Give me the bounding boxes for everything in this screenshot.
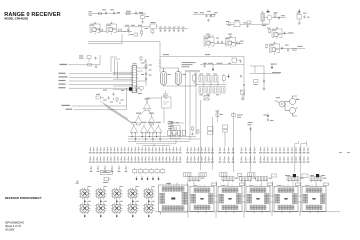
resistor network RN3 [144, 168, 148, 174]
junction arrow right of U201 [307, 17, 309, 18]
label U401 [193, 185, 198, 186]
wire: bus to mixer [88, 34, 160, 55]
capacitor C208 [287, 49, 289, 53]
label R306 [96, 94, 107, 101]
box U330 [208, 127, 214, 135]
wire: long vertical V212 [212, 117, 214, 146]
wire: buffer out [263, 18, 286, 25]
resistor R330 [192, 126, 194, 131]
resistor network RN1 [133, 168, 137, 174]
labels bank [200, 74, 220, 96]
capacitor C331 [249, 127, 251, 131]
wire: net AL_LNL to U301 [69, 87, 132, 89]
relay K1 [79, 186, 91, 203]
relay K9 [127, 201, 139, 218]
label net R.CH [66, 109, 73, 110]
wire: interstage coupling [100, 31, 132, 33]
label U402 [221, 185, 226, 186]
ground [298, 22, 301, 25]
label T302 [183, 74, 187, 75]
header connector P2 [222, 177, 234, 183]
bits at 230 [232, 112, 236, 119]
capacitor C115 shunt [182, 29, 184, 33]
capacitor C332 [267, 118, 269, 122]
label Y201 [226, 20, 247, 23]
wire: LC ladder [158, 28, 188, 30]
label C110 [159, 26, 162, 29]
label far right pads [339, 151, 350, 154]
small cluster above packages [104, 178, 111, 181]
IC U321 [171, 126, 181, 139]
capacitor C301 [94, 57, 96, 61]
label net AL_LNL [59, 87, 66, 88]
wire: field feed bends [136, 140, 176, 147]
label net DVRE_FB1 [59, 76, 68, 77]
connector pin row PF1 [271, 147, 310, 153]
wire: diagonal feeds [100, 101, 135, 125]
capacitor C303 [144, 59, 146, 63]
resistor network RN4 [149, 168, 153, 174]
label C115 [182, 26, 185, 29]
label C114 [177, 26, 180, 29]
wire: +V rail top left [88, 13, 146, 15]
junction dot [243, 84, 244, 85]
label C112 [168, 26, 171, 29]
wire [282, 33, 288, 35]
resistor R202 [236, 42, 241, 44]
label PACW.TX with connector symbol [60, 64, 68, 65]
wire: LO feed [193, 13, 216, 15]
connector pin row PE2 [259, 156, 269, 162]
connector pin row PC1 [219, 147, 235, 153]
resistor R103 [99, 29, 104, 31]
junction arrow [228, 74, 230, 78]
label 15.2M [163, 54, 210, 55]
wire: shield box top edge [160, 56, 244, 101]
label net RF_UNL [59, 80, 66, 81]
resistor R201 [247, 21, 251, 24]
tick marks on vertical feed [159, 60, 161, 66]
wire: QFP row interconnect [214, 196, 302, 202]
transistor Q303 [285, 102, 298, 117]
transistor Q201 stage [204, 35, 214, 48]
capacitor C103 [135, 11, 137, 15]
splitter tree: amp A2 [135, 113, 142, 125]
wire: long vertical V250 [250, 127, 252, 146]
resistor R320 [254, 80, 259, 83]
capacitor C207 [281, 47, 283, 51]
label cluster [141, 63, 152, 76]
node VCC1 labels [89, 9, 121, 15]
wire: net B_UP to U301 [69, 73, 132, 75]
label rows: LO_FLT nets [182, 62, 196, 67]
label NOTE1 text [102, 172, 111, 173]
label PL.MO [272, 72, 281, 73]
label net DET [285, 45, 303, 47]
capacitor C304 [145, 72, 147, 76]
resistor R307 [116, 97, 118, 102]
header connector P4 [256, 177, 268, 183]
ground hatch G1 [163, 91, 169, 99]
IC U405 [302, 183, 329, 213]
capacitor C202 [217, 41, 219, 45]
resistor R310 [223, 74, 226, 84]
crystal bank row 2 [199, 87, 225, 94]
label row 2 [203, 63, 231, 64]
label right col [264, 115, 274, 122]
label 216 [216, 111, 224, 115]
crystal bank row 1 [199, 76, 218, 83]
resistor R102 [141, 13, 145, 20]
crystal filter FL201 [261, 11, 264, 25]
wire: long vertical V225 [224, 132, 226, 146]
connector J2 [199, 173, 207, 177]
box U331 [223, 125, 228, 132]
label P5 [300, 178, 303, 179]
label FL101 [151, 22, 156, 23]
wire: long vertical V233 [233, 119, 235, 146]
regulator U201 [297, 15, 302, 22]
ferrite FB2 (filled) [316, 174, 319, 177]
label net RF_IN [126, 11, 143, 13]
IC U404 [274, 183, 301, 213]
wire: shield box 2 left edge [186, 71, 201, 136]
label P3 [253, 178, 256, 179]
connector pin row PF2 [271, 156, 310, 162]
label U404 [277, 185, 282, 186]
splitter tree: amp A5 [140, 122, 147, 134]
header connector P5 [287, 177, 299, 183]
label net B_UP [59, 73, 66, 74]
relay K4 [127, 186, 139, 203]
junction arrow [212, 67, 214, 71]
splitter tree: amp A6 [148, 122, 155, 134]
splitter tree: amp A3 [148, 113, 155, 125]
capacitor C205 [303, 15, 305, 19]
resistor R304 [145, 64, 147, 69]
capacitor C401 [76, 180, 78, 184]
ferrite FB1 (filled) [293, 174, 296, 177]
diode D301 [241, 90, 245, 97]
wire: header drops [194, 183, 316, 187]
IC U401 [190, 183, 217, 213]
label P2 [235, 178, 238, 179]
relay K6 [79, 201, 91, 218]
connector pin row PD1 [240, 147, 256, 153]
capacitor C110 shunt [159, 29, 161, 33]
junction dots [113, 99, 121, 104]
wire: inter-IC verticals [188, 173, 301, 212]
wire: field crossings [201, 146, 251, 172]
label P4 [269, 178, 272, 179]
label bottom row [285, 175, 325, 176]
relay K8 [111, 201, 123, 218]
relay K2 [95, 186, 107, 203]
label Q203 [262, 11, 285, 26]
label rows near 237-243 [237, 115, 253, 126]
relay K5 [143, 186, 155, 203]
capacitor C330 [191, 132, 193, 136]
inductor L101 [126, 13, 131, 15]
transistor Q205 stage [270, 42, 280, 55]
transistor Q302 [285, 96, 298, 105]
header connector P6 [310, 177, 322, 183]
resistor R301 [87, 56, 91, 62]
label R102 value [139, 13, 149, 17]
transistor Q202 stage [226, 35, 236, 48]
capacitor C320 [240, 75, 242, 79]
capacitor C307 [112, 93, 114, 97]
connector J1 [184, 173, 192, 177]
hook terminal [299, 141, 307, 144]
connector pin row PA1 [89, 147, 182, 153]
connector pin row PB1 [186, 147, 214, 153]
splitter tree: amp A4 [130, 122, 137, 134]
IC U301 interconnect header [131, 66, 138, 93]
wire: U320 out bus [167, 122, 184, 124]
capacitor C201 [246, 24, 248, 28]
connector pin row PC2 [219, 156, 235, 162]
label T301 [168, 74, 172, 75]
ground [241, 97, 244, 100]
capacitor C104 [141, 20, 143, 24]
wire: distribution bus [128, 137, 200, 142]
chain at 216 [216, 110, 219, 122]
label Q201 Q202 [206, 34, 244, 42]
connector pin row PA2 [89, 156, 182, 162]
wire: PL node cluster [250, 66, 280, 88]
wire: bank bus [190, 72, 226, 140]
label cluster [103, 182, 108, 183]
resistor R303 [140, 56, 142, 61]
relay K7 [95, 201, 107, 218]
header connector P3 [240, 177, 252, 183]
wire: U400 stubs [161, 183, 178, 215]
label R320 [254, 84, 258, 85]
capacitor C111 shunt [164, 29, 166, 33]
label LO nets [194, 11, 218, 13]
transistor Q204 stage [272, 27, 282, 40]
wire: net RF_UNL to U301 [69, 80, 132, 82]
IC U400 main interconnect [159, 185, 189, 212]
power arrows row [136, 176, 160, 180]
wire: PACW.TX line [68, 55, 100, 65]
components below U301 [135, 87, 143, 93]
label PLAE [271, 64, 277, 65]
connector J3 [220, 173, 228, 177]
bandpass filter FL101 [148, 24, 158, 29]
label TP201 [79, 55, 84, 58]
IF transformer T302 [175, 68, 181, 86]
wire: long vertical V200 [200, 100, 202, 146]
resistor R203 [274, 13, 276, 18]
connector pin row PE1 [259, 147, 269, 153]
wire: net JT_UNL to U301 [69, 84, 132, 86]
resistor R105 [151, 29, 154, 35]
IC U402 [218, 183, 245, 213]
connector pin row PB2 [186, 156, 214, 162]
capacitor C114 shunt [177, 29, 179, 33]
transistor Q101 amplifier stage [90, 22, 100, 35]
label cluster2 [103, 90, 124, 103]
oscillator Y201 [226, 22, 268, 27]
resistor R204 [269, 29, 271, 34]
label net JT_UNL [59, 84, 66, 85]
label net MON_ICA [62, 105, 71, 106]
capacitor C311 [239, 60, 241, 64]
resistor R331 [197, 129, 199, 134]
power arrow [298, 9, 300, 13]
capacitor C121 [209, 14, 211, 18]
svg-text:MODEL CR04022B: MODEL CR04022B [4, 17, 28, 21]
capacitor C206 [283, 32, 285, 36]
capacitor C105 [127, 29, 129, 33]
relay K3 [111, 186, 123, 203]
splitter tree: amp A7 [155, 122, 162, 134]
connector pin row PA3 (sparse) [90, 166, 128, 172]
capacitor C113 shunt [173, 29, 175, 33]
capacitor C302 [95, 65, 97, 69]
resistor R101 [98, 13, 103, 15]
resistor R306 [96, 96, 104, 99]
label net ATEST [267, 28, 294, 34]
header connector P1 [188, 177, 200, 183]
capacitor C306 [107, 96, 109, 100]
wire: riser pair to P5 field [295, 144, 307, 173]
capacitor C305 [145, 77, 147, 81]
wire: ground baseline [155, 212, 340, 218]
label M1 nets [125, 25, 148, 35]
wire: Q201-Q202 link [203, 36, 243, 44]
connector J301 black body [129, 87, 132, 90]
resistor R205 [266, 44, 268, 49]
capacitor C102 [113, 11, 115, 15]
resistor R104 [118, 29, 123, 31]
splitter tree: amp A1 [143, 98, 150, 110]
X-box U310 [204, 96, 209, 101]
transistor Q203 [264, 15, 277, 23]
capacitor C310 [203, 64, 205, 68]
svg-text:3/1/2004: 3/1/2004 [5, 229, 15, 232]
connector J4 [248, 173, 256, 177]
corner wires above U301 [111, 57, 120, 79]
IF transformer T301 [161, 68, 167, 86]
label U301 [133, 63, 142, 94]
wire: detector out [280, 48, 306, 50]
transistor Q301 [275, 101, 286, 107]
label P1 [201, 178, 204, 179]
label P6 [323, 178, 326, 179]
relay K10 [143, 201, 155, 218]
wire: tree legs [132, 132, 160, 141]
label U321 [171, 122, 180, 123]
ground [207, 19, 210, 22]
wire: U301 right pins [138, 62, 146, 86]
resistor network RN2 [138, 168, 142, 174]
wire: IF chain [160, 68, 196, 86]
capacitor C112 shunt [168, 29, 170, 33]
divider U320 [162, 95, 172, 123]
junction dots on bus [131, 136, 160, 140]
capacitor C203 [221, 41, 223, 45]
wire: net DVRE_FB1 to U301 [69, 76, 132, 78]
connector pin row PD2 [240, 156, 256, 162]
wire: tree links [137, 98, 162, 125]
cluster at 231-238 [232, 58, 240, 62]
label C111 [164, 26, 167, 29]
capacitor C204 [278, 16, 280, 20]
filter pads row [168, 131, 186, 136]
label U403 [249, 185, 254, 186]
wire: MON_ICA [72, 105, 127, 107]
label U400 top [166, 183, 171, 184]
label box NOTE1 [100, 171, 112, 175]
resistor R120 [211, 15, 216, 17]
junction arrow [271, 65, 273, 69]
wire: bus taper [113, 72, 132, 90]
label U201 [297, 13, 307, 14]
power arrow [267, 9, 269, 13]
label U320 pins [168, 121, 174, 129]
mixer M1 cluster [124, 27, 148, 37]
ground [262, 87, 265, 90]
capacitor C120 [205, 14, 207, 18]
misc parts row [238, 173, 309, 177]
resistor R305 [193, 73, 196, 84]
transistor Q102 amplifier stage [107, 22, 117, 35]
label C113 [173, 26, 176, 29]
capacitor C321 [263, 80, 265, 84]
wire: R.CH [74, 88, 127, 110]
svg-text:RECEIVER INTERCONNECT: RECEIVER INTERCONNECT [5, 196, 42, 200]
wire: LO distribution [200, 64, 244, 66]
capacitor C101 [105, 11, 107, 15]
resistor R302 [88, 64, 92, 66]
label Q301 [276, 97, 300, 100]
junction arrow [267, 113, 269, 117]
wire: K1 feed [75, 183, 79, 185]
resistor R206 [292, 49, 297, 51]
IC U403 [246, 183, 273, 213]
resistor network RN6 [161, 168, 165, 174]
label U405 [305, 185, 310, 186]
resistor network RN5 [155, 168, 159, 174]
